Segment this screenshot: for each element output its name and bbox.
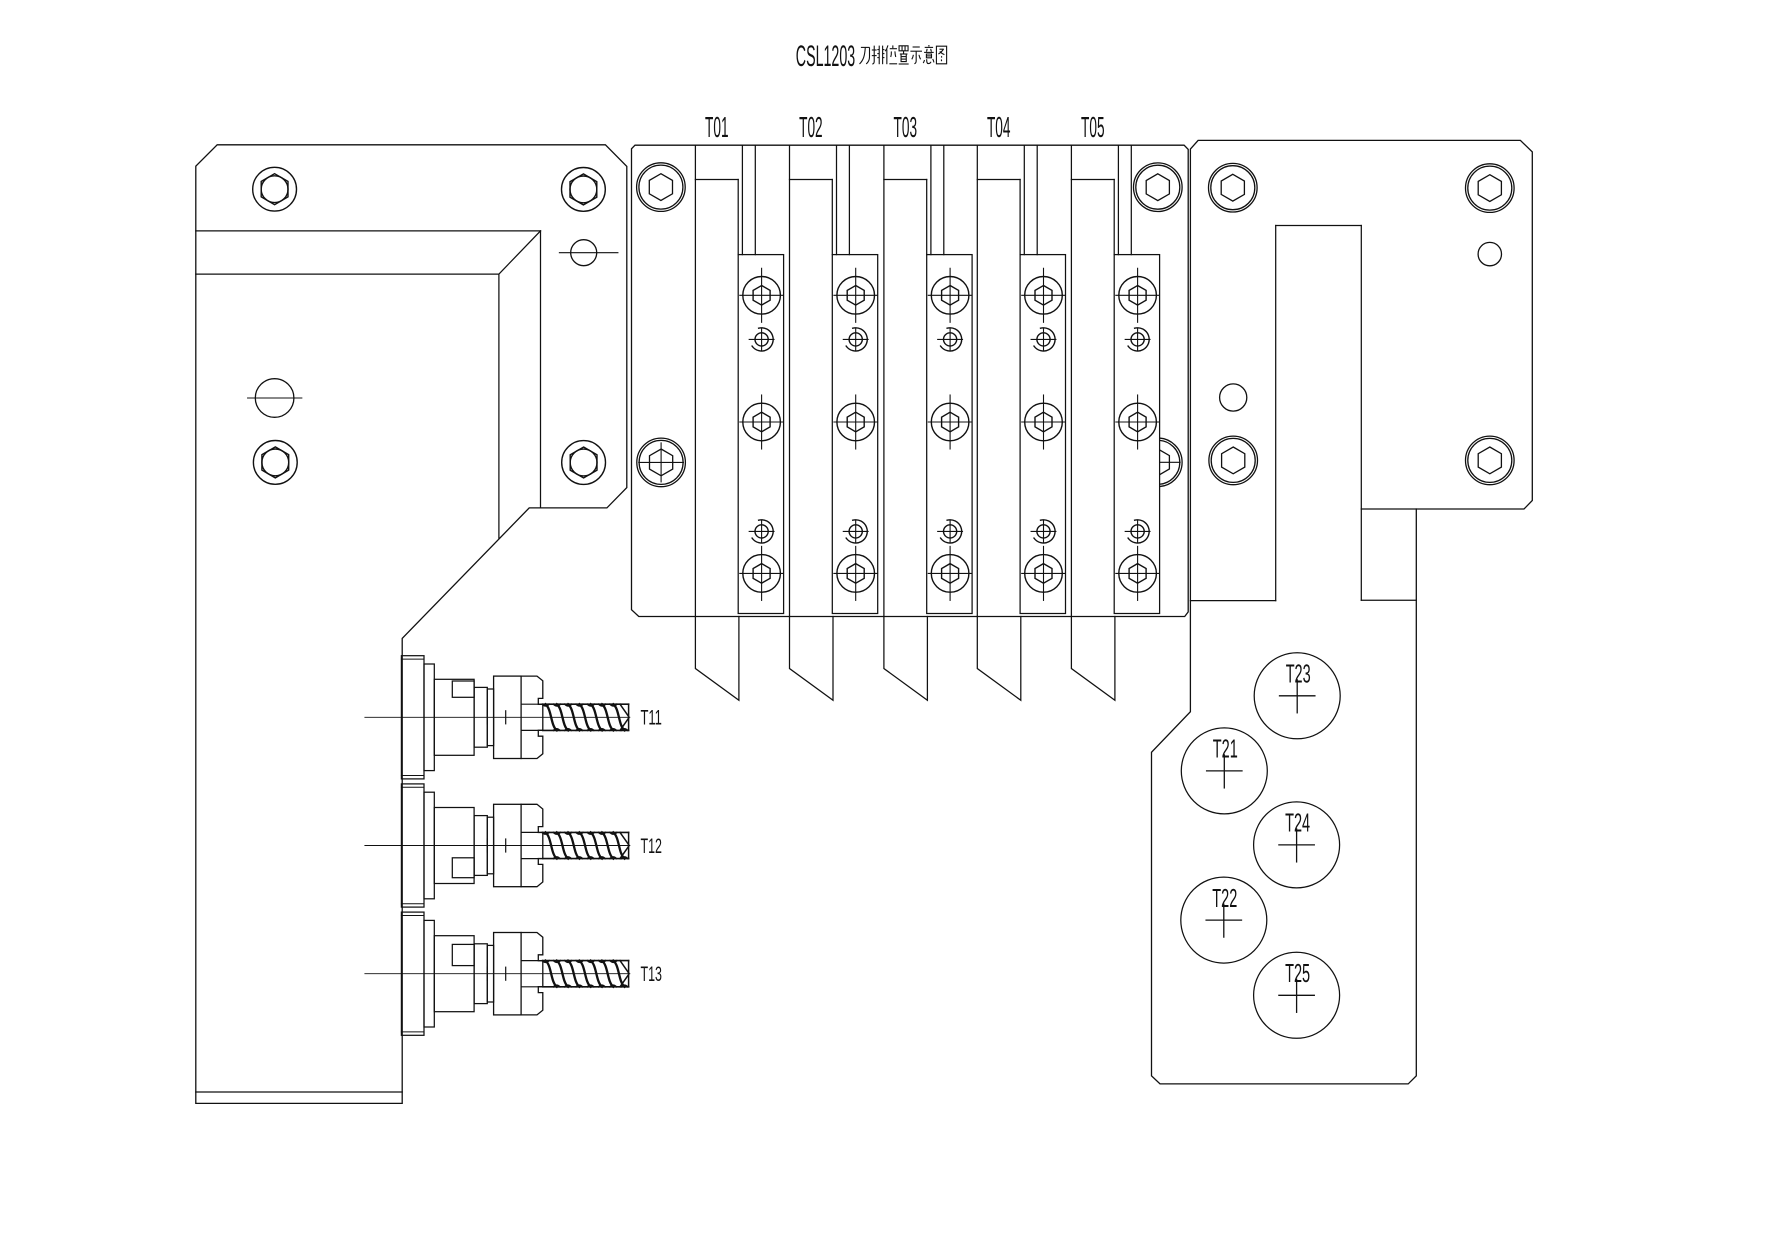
svg-text:T24: T24 bbox=[1285, 808, 1310, 838]
svg-text:T25: T25 bbox=[1285, 958, 1310, 988]
svg-text:T11: T11 bbox=[640, 707, 662, 730]
svg-text:T22: T22 bbox=[1212, 883, 1237, 913]
svg-text:T13: T13 bbox=[640, 963, 662, 986]
svg-text:T12: T12 bbox=[640, 835, 662, 858]
svg-text:T03: T03 bbox=[894, 112, 918, 144]
svg-text:T01: T01 bbox=[705, 112, 729, 144]
svg-text:T23: T23 bbox=[1286, 659, 1311, 689]
svg-text:T04: T04 bbox=[987, 112, 1011, 144]
svg-text:T21: T21 bbox=[1213, 734, 1238, 764]
svg-text:CSL1203: CSL1203 bbox=[796, 40, 855, 73]
svg-text:T05: T05 bbox=[1081, 112, 1105, 144]
svg-text:T02: T02 bbox=[799, 112, 823, 144]
